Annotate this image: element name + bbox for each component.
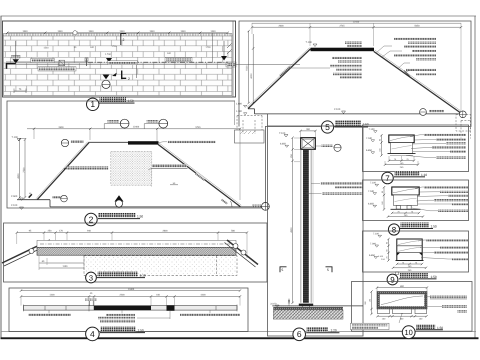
foundation hatch marks bbox=[240, 131, 255, 134]
overall dim line bbox=[252, 22, 461, 24]
right annotations bbox=[426, 239, 468, 241]
bottom-left boxed annotation bbox=[351, 323, 390, 329]
section cut mark 2 top bbox=[121, 34, 126, 46]
coping cap bbox=[392, 187, 419, 195]
right edge ticks bbox=[227, 44, 232, 49]
lower dims bbox=[389, 160, 414, 162]
svg-text:2600: 2600 bbox=[278, 24, 284, 27]
small box symbol on rail bbox=[59, 60, 65, 65]
svg-text:2745: 2745 bbox=[339, 24, 345, 27]
svg-text:1:50: 1:50 bbox=[138, 329, 144, 333]
section arrow left 1.600 bbox=[12, 55, 21, 58]
box 3 frame bbox=[4, 223, 268, 282]
ground line bbox=[272, 305, 363, 307]
svg-text:5: 5 bbox=[282, 268, 284, 272]
right slope double line bbox=[374, 51, 462, 114]
right annotations bbox=[424, 186, 468, 188]
panel dashed extension and dim 50 bbox=[151, 169, 153, 187]
svg-text:1:10: 1:10 bbox=[421, 173, 427, 177]
pole outer lines bbox=[300, 149, 302, 302]
svg-text:7500: 7500 bbox=[23, 167, 26, 173]
plus-level marks above bar bbox=[89, 301, 91, 306]
stipple panel bbox=[111, 152, 152, 186]
leader text right bbox=[180, 313, 240, 316]
svg-text:1540: 1540 bbox=[22, 30, 28, 33]
extension verticals bbox=[251, 23, 253, 34]
svg-text:12440: 12440 bbox=[353, 20, 360, 23]
svg-text:8: 8 bbox=[392, 225, 397, 234]
feet bbox=[378, 309, 390, 314]
elevation target circle at box corner bbox=[252, 205, 261, 208]
svg-text:1540: 1540 bbox=[149, 30, 155, 33]
box 2 frame bbox=[7, 101, 266, 208]
svg-text:1540: 1540 bbox=[119, 30, 125, 33]
leader text left bbox=[29, 313, 71, 316]
dash-dot centerline right part bbox=[88, 61, 228, 63]
gravel hatch band bbox=[273, 310, 343, 319]
svg-text:1.100: 1.100 bbox=[236, 110, 243, 113]
slope angle arc at foot bbox=[231, 201, 233, 207]
box 8 frame bbox=[363, 180, 469, 221]
corner triangles bbox=[397, 253, 400, 256]
svg-text:4000: 4000 bbox=[250, 73, 253, 79]
right leaders bbox=[376, 46, 414, 73]
svg-text:10: 10 bbox=[405, 328, 413, 337]
left end plate bbox=[2, 240, 50, 263]
extension verticals bbox=[33, 128, 35, 139]
coping thick bar bbox=[128, 141, 159, 144]
left slope leader text bbox=[64, 168, 65, 169]
section cut mark 2 bottom bbox=[122, 71, 127, 79]
base line bbox=[391, 208, 421, 210]
right dim box bbox=[226, 62, 236, 67]
boxed label 2 (coping text) bbox=[38, 67, 76, 71]
boxed label 1 on rail bbox=[31, 59, 55, 63]
section cut marks 5-5 bbox=[280, 267, 287, 273]
leader lines bbox=[424, 297, 442, 307]
svg-text:5745: 5745 bbox=[195, 126, 201, 129]
section block bbox=[397, 239, 422, 261]
bar end ticks bbox=[23, 305, 237, 312]
svg-text:4400: 4400 bbox=[200, 294, 206, 297]
svg-text:6: 6 bbox=[297, 329, 302, 339]
box 1 frame bbox=[3, 21, 236, 97]
extension ticks bbox=[21, 296, 240, 305]
soldier course bbox=[4, 33, 232, 36]
panel label underlined bbox=[152, 164, 187, 167]
sheet bottom thick border bbox=[1, 337, 479, 339]
cap square with X bbox=[301, 138, 316, 150]
svg-text:5: 5 bbox=[325, 122, 330, 132]
rod centerline bbox=[40, 243, 230, 245]
svg-text:1540: 1540 bbox=[180, 30, 186, 33]
svg-text:7: 7 bbox=[385, 174, 390, 183]
ground upper bbox=[248, 108, 255, 110]
svg-text:2.600: 2.600 bbox=[11, 195, 18, 198]
svg-text:5: 5 bbox=[327, 268, 329, 272]
title circle 1 bbox=[87, 98, 99, 110]
svg-text:1540: 1540 bbox=[57, 30, 63, 33]
box 7 frame bbox=[363, 125, 469, 172]
callout circle on ground bbox=[420, 109, 427, 116]
extension verticals bbox=[17, 233, 247, 258]
left dim ticks bbox=[388, 239, 390, 261]
svg-text:1:50: 1:50 bbox=[431, 275, 437, 279]
svg-text:3: 3 bbox=[89, 273, 93, 282]
lower dims bbox=[39, 262, 84, 264]
boxed band mid bbox=[108, 61, 138, 65]
base line bbox=[396, 260, 424, 262]
svg-text:2.100: 2.100 bbox=[11, 204, 18, 207]
leader lines bbox=[418, 240, 452, 259]
base plate bbox=[299, 304, 313, 306]
right end plate bbox=[227, 240, 258, 265]
leader annotations right bbox=[321, 182, 364, 184]
ground upper bbox=[17, 199, 50, 201]
left vertical dim bbox=[292, 138, 294, 303]
leader arrowhead bbox=[112, 73, 117, 76]
brick box inner right line bbox=[232, 21, 234, 97]
callout circle right of cap bbox=[322, 145, 333, 147]
svg-text:5.100: 5.100 bbox=[378, 255, 384, 258]
sheet top border line bbox=[1, 15, 477, 17]
dim 300 over cap bbox=[301, 130, 316, 132]
svg-text:1:50: 1:50 bbox=[137, 215, 143, 219]
right vertical line bbox=[212, 33, 214, 62]
sheet right frame bbox=[474, 16, 476, 338]
callout circle bottom bbox=[53, 196, 61, 199]
right annotations bbox=[424, 134, 466, 136]
left slope (double line) bbox=[37, 143, 89, 200]
left slope double line bbox=[248, 49, 311, 109]
svg-text:1400: 1400 bbox=[49, 294, 55, 297]
svg-text:1.600: 1.600 bbox=[236, 103, 243, 106]
box 4 frame bbox=[9, 288, 248, 332]
top dim 800 bbox=[377, 287, 427, 289]
anchor bolts into ground bbox=[302, 306, 304, 313]
box 5 frame bbox=[239, 21, 471, 127]
ground lower bbox=[50, 206, 266, 208]
coping cap bbox=[389, 135, 414, 143]
coping thick bar bbox=[311, 48, 375, 52]
box 6 frame bbox=[268, 126, 364, 336]
sheet inner bottom line bbox=[1, 331, 476, 333]
top dimension line bbox=[252, 26, 461, 28]
ground lower bbox=[255, 113, 463, 115]
wall body bbox=[394, 195, 418, 206]
svg-text:4500: 4500 bbox=[17, 173, 20, 179]
svg-text:2600: 2600 bbox=[58, 126, 64, 129]
bar black square bbox=[167, 305, 175, 311]
brick field bbox=[4, 35, 232, 95]
balloon 4-4 bbox=[108, 120, 120, 123]
dashed foundation box right bbox=[456, 115, 471, 139]
right annotation column bbox=[394, 38, 436, 40]
svg-text:1100: 1100 bbox=[63, 265, 69, 268]
lower dims bbox=[397, 263, 422, 265]
small side detail bbox=[396, 272, 399, 275]
boxed label right (fenggefeng) bbox=[165, 58, 192, 62]
rotated 1:1.25 on right slope bbox=[195, 172, 205, 180]
svg-text:2.100: 2.100 bbox=[334, 108, 341, 111]
right annotations bbox=[430, 296, 467, 299]
top dimension labels bbox=[22, 30, 216, 33]
inner dimension row bbox=[43, 45, 211, 55]
balloon 5-5 bbox=[147, 120, 159, 123]
left dims bbox=[371, 292, 373, 315]
axis bubble on dim line bbox=[73, 31, 77, 35]
svg-text:12400: 12400 bbox=[133, 126, 140, 129]
right section arrow bbox=[223, 41, 225, 56]
anchor bolt at slope foot bbox=[28, 194, 32, 198]
anchor rod hatched band bbox=[37, 247, 236, 255]
overall dim line bbox=[21, 290, 240, 292]
svg-text:1540: 1540 bbox=[88, 30, 94, 33]
wall body bbox=[391, 143, 413, 154]
top edge line bbox=[89, 141, 131, 143]
svg-text:5000: 5000 bbox=[246, 65, 249, 71]
svg-text:4500: 4500 bbox=[290, 227, 293, 233]
slope break mark right bbox=[404, 71, 410, 77]
foundation solid box left bbox=[235, 130, 265, 143]
box 10 frame bbox=[352, 282, 473, 332]
grout dashed box bbox=[84, 256, 237, 276]
wall cap rail (plan) bbox=[6, 61, 88, 63]
svg-text:9: 9 bbox=[390, 275, 395, 284]
right slope (double line) bbox=[158, 144, 240, 206]
svg-text:5050: 5050 bbox=[414, 24, 420, 27]
wall bar bbox=[23, 306, 237, 310]
center annotation column bbox=[345, 42, 362, 44]
lower dims bbox=[392, 212, 419, 214]
svg-text:1340: 1340 bbox=[210, 30, 216, 33]
svg-text:2200: 2200 bbox=[119, 294, 125, 297]
svg-text:1:20: 1:20 bbox=[331, 329, 337, 333]
base line bbox=[388, 153, 416, 155]
section bubble A bbox=[115, 195, 124, 201]
svg-text:1:50: 1:50 bbox=[431, 224, 437, 228]
pole hatched core bbox=[303, 149, 309, 302]
svg-text:1540: 1540 bbox=[43, 47, 49, 50]
callout circle top bbox=[61, 139, 68, 146]
svg-text:4: 4 bbox=[90, 329, 95, 339]
feet dims bbox=[378, 315, 427, 317]
dimension line bbox=[17, 232, 247, 234]
svg-text:1700: 1700 bbox=[111, 45, 117, 48]
svg-text:2: 2 bbox=[128, 77, 130, 81]
segment dim line bbox=[21, 295, 240, 297]
title underline 1 bbox=[99, 102, 135, 105]
svg-text:7.100: 7.100 bbox=[306, 41, 313, 44]
bar black segment bbox=[94, 306, 151, 310]
anchor rod white band bbox=[37, 240, 236, 247]
svg-text:13400: 13400 bbox=[128, 288, 135, 291]
stipple frame slab bbox=[377, 292, 427, 310]
compacted soil band bbox=[273, 307, 343, 310]
left vertical dims bbox=[19, 140, 21, 198]
rotated slope label bbox=[279, 65, 291, 76]
small dim 75 bbox=[14, 90, 26, 92]
svg-text:2800: 2800 bbox=[162, 230, 168, 233]
title text 1 bbox=[100, 97, 127, 102]
feet bbox=[396, 206, 400, 210]
leader text center stack bbox=[106, 314, 135, 316]
box 9 frame bbox=[363, 231, 469, 272]
small dim at ground bbox=[288, 299, 290, 307]
svg-text:1.700: 1.700 bbox=[105, 53, 111, 56]
left dim ticks bbox=[383, 187, 385, 209]
svg-text:1:50: 1:50 bbox=[363, 123, 369, 127]
svg-text:1700: 1700 bbox=[205, 46, 211, 49]
dashed foundation upper left bbox=[237, 116, 262, 135]
left vertical dim bbox=[248, 31, 250, 103]
svg-text:2: 2 bbox=[123, 38, 125, 42]
sheet left frame bbox=[0, 16, 2, 338]
svg-text:1:10: 1:10 bbox=[140, 274, 146, 278]
section balloon below bbox=[103, 75, 110, 80]
left dim ticks bbox=[381, 135, 383, 155]
elevation target circle right bbox=[459, 111, 466, 118]
leader lines bbox=[406, 135, 450, 158]
top dimension line bbox=[27, 128, 240, 130]
center leaders bbox=[290, 67, 330, 69]
coping leader text bbox=[168, 141, 216, 144]
leader lines bbox=[412, 187, 452, 211]
top dimension line bbox=[7, 32, 228, 34]
